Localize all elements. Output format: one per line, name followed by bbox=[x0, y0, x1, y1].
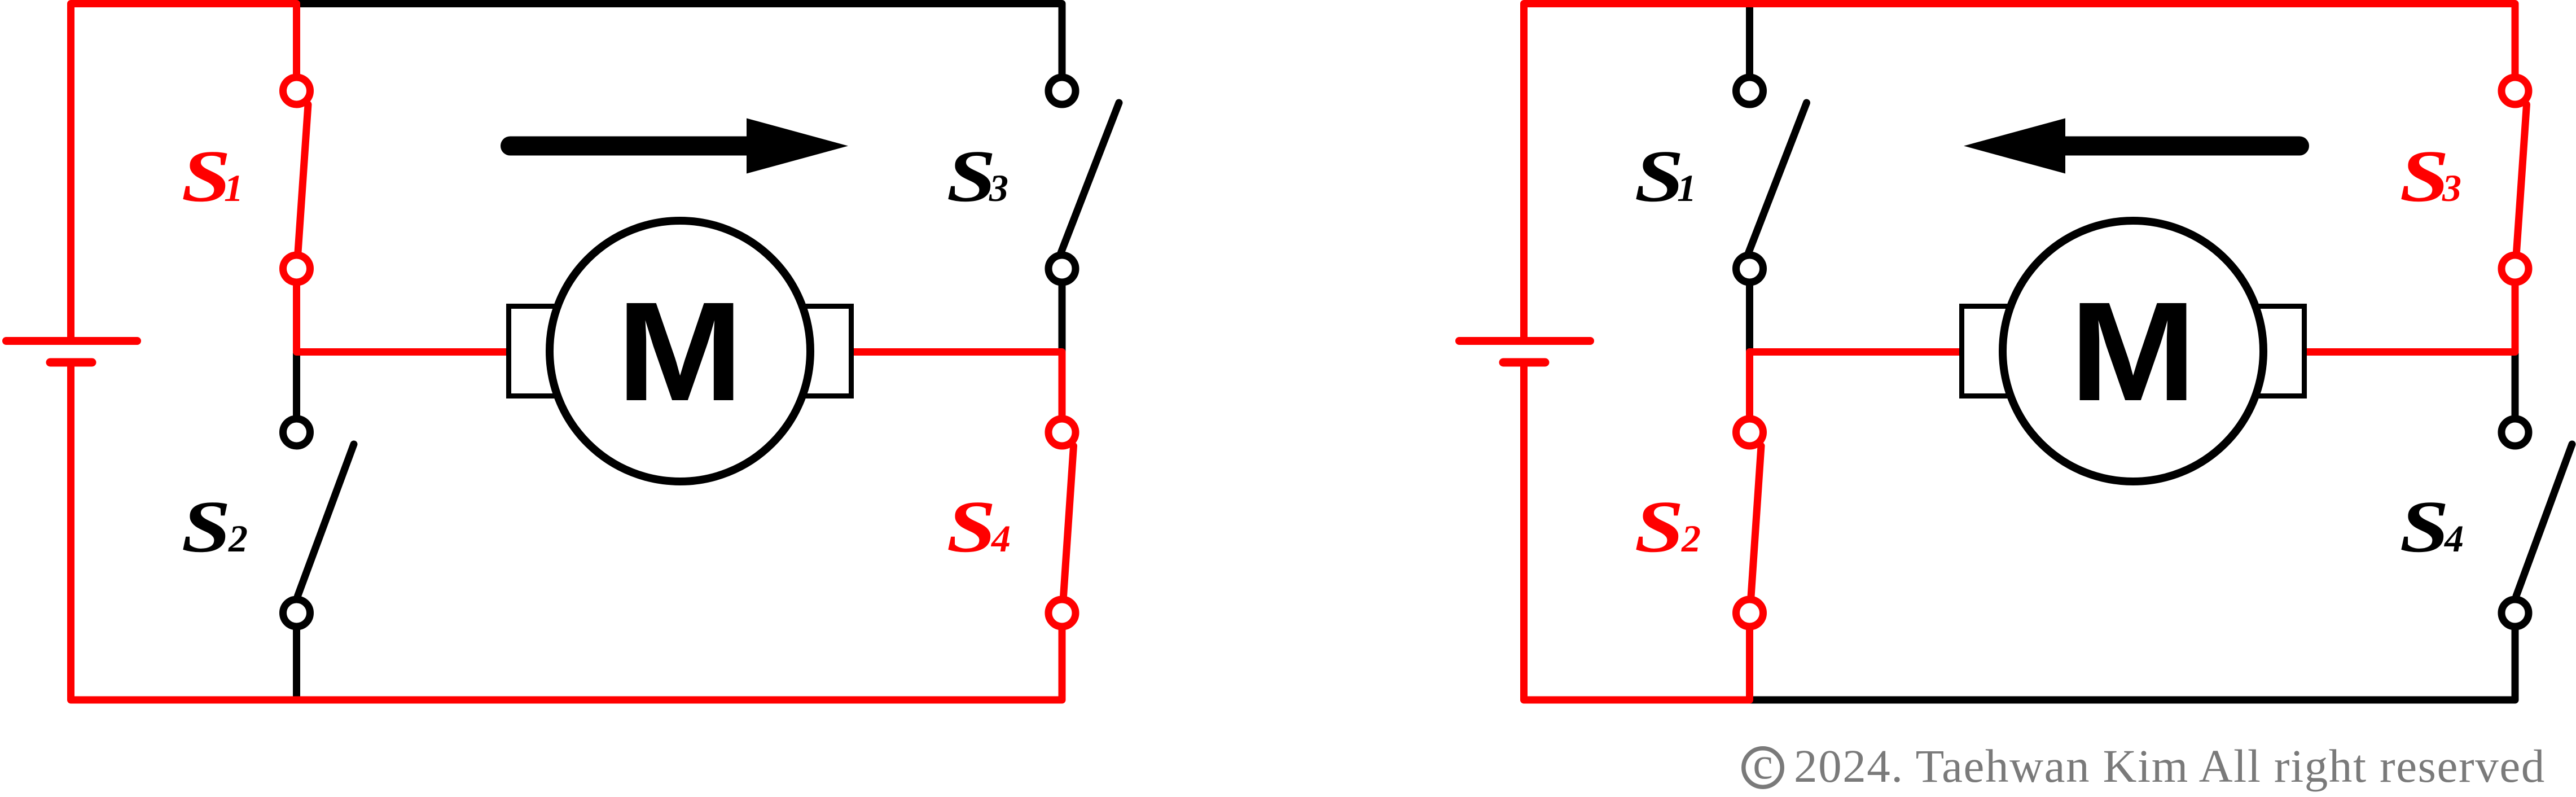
motor M2 left terminal box bbox=[1962, 306, 2050, 396]
current direction arrow (rightward) shaft bbox=[510, 137, 747, 156]
wire: black from top bus down to S1 top contact (right circuit) bbox=[1746, 4, 1753, 80]
switch S3 bottom contact (right circuit) bbox=[2502, 255, 2529, 282]
switch S2 bottom contact bbox=[283, 599, 310, 627]
switch S1 top contact bbox=[283, 77, 310, 104]
wire: black from S1 bottom contact to motor-left junction (right circuit) bbox=[1746, 283, 1753, 356]
motor M1 right terminal box bbox=[764, 306, 852, 396]
wire: red from motor-left junction to S2 top contact (right circuit) bbox=[1750, 352, 1973, 419]
wire: black from S2 bottom contact down to bottom bus bbox=[293, 627, 300, 700]
switch S2 blade (closed, red, right circuit) bbox=[1751, 446, 1761, 597]
switch S2 top contact bbox=[283, 419, 310, 446]
svg-text:M: M bbox=[617, 273, 744, 431]
svg-text:M: M bbox=[2070, 273, 2197, 431]
current direction arrow (leftward) head bbox=[1964, 119, 2065, 174]
motor M1 left terminal box bbox=[509, 306, 596, 396]
svg-text:S: S bbox=[2400, 486, 2450, 568]
switch S1 blade (closed, red) bbox=[298, 104, 308, 252]
svg-text:S: S bbox=[1635, 135, 1684, 217]
wire: red battery positive, up left side, along top to S1 bbox=[71, 4, 297, 338]
switch S4 bottom contact bbox=[1048, 599, 1076, 627]
svg-text:S: S bbox=[947, 486, 997, 568]
switch S3 top contact bbox=[1048, 77, 1076, 104]
svg-text:4: 4 bbox=[990, 517, 1011, 560]
wire: red battery positive up, along top bus to S3 (right circuit) bbox=[1524, 4, 2516, 338]
switch S3 bottom contact bbox=[1048, 255, 1076, 282]
wire: black bottom bus from S2 node to S4 bottom contact (right circuit) bbox=[1750, 627, 2516, 700]
wire: red from S1 bottom contact to motor-left junction, to motor left terminal bbox=[297, 283, 520, 352]
switch S4 blade (closed, red) bbox=[1064, 446, 1074, 597]
wire: top bus black segment S1 node to S3 node, down to S3 bbox=[297, 4, 1063, 80]
wire: black from S1/S2 junction down to S2 top contact bbox=[293, 353, 300, 418]
motor M1 body circle bbox=[550, 221, 810, 481]
switch S4 top contact bbox=[1048, 419, 1076, 446]
battery BT2 positive plate (long, red) bbox=[1459, 337, 1590, 345]
switch S3 blade (closed, red, right circuit) bbox=[2517, 104, 2527, 252]
svg-text:3: 3 bbox=[2442, 167, 2461, 209]
switch S1 top contact (right circuit) bbox=[1736, 77, 1763, 104]
svg-text:1: 1 bbox=[1677, 167, 1696, 209]
battery BT1 positive plate (long, red) bbox=[6, 337, 137, 345]
switch S3 top contact (right circuit) bbox=[2502, 77, 2529, 104]
switch S4 bottom contact (right circuit) bbox=[2502, 599, 2529, 627]
battery BT2 negative plate (short, red) bbox=[1503, 358, 1545, 367]
switch S1 bottom contact bbox=[283, 255, 310, 282]
wire: black from S3/S4 junction down to S4 top contact (right circuit) bbox=[2512, 353, 2519, 418]
svg-text:c: c bbox=[1753, 739, 1773, 789]
svg-text:S: S bbox=[947, 135, 997, 217]
motor M2 right terminal box bbox=[2217, 306, 2305, 396]
svg-text:3: 3 bbox=[989, 167, 1008, 209]
svg-text:2: 2 bbox=[228, 517, 248, 560]
wire: red from S3 bottom contact to junction, left to motor right terminal (right circuit) bbox=[2292, 283, 2515, 352]
svg-text:2024. Taehwan Kim All right re: 2024. Taehwan Kim All right reserved bbox=[1794, 740, 2546, 792]
switch S4 top contact (right circuit) bbox=[2502, 419, 2529, 446]
switch S2 top contact (right circuit) bbox=[1736, 419, 1763, 446]
svg-text:2: 2 bbox=[1681, 517, 1701, 560]
svg-text:S: S bbox=[182, 135, 231, 217]
switch S3 blade (open, black) bbox=[1061, 103, 1119, 253]
wire: red from motor right terminal to S3/S4 junction, down to S4 top contact bbox=[844, 352, 1062, 419]
current direction arrow (leftward) shaft bbox=[2065, 137, 2299, 156]
svg-text:S: S bbox=[182, 486, 231, 568]
battery BT1 negative plate (short, red) bbox=[50, 358, 92, 367]
svg-text:1: 1 bbox=[224, 167, 243, 209]
switch S1 blade (open, black, right circuit) bbox=[1749, 103, 1807, 253]
switch S4 blade (open, black, right circuit) bbox=[2516, 444, 2572, 596]
svg-text:4: 4 bbox=[2443, 517, 2464, 560]
switch S2 bottom contact (right circuit) bbox=[1736, 599, 1763, 627]
motor M2 body circle bbox=[2003, 221, 2263, 481]
svg-text:S: S bbox=[2400, 135, 2450, 217]
wire: black from S3 bottom contact down to motor-right junction bbox=[1059, 283, 1066, 356]
svg-text:S: S bbox=[1635, 486, 1684, 568]
wire: red bottom bus from battery negative to S4 bottom contact bbox=[71, 366, 1063, 700]
current direction arrow (rightward) head bbox=[747, 119, 848, 174]
switch S2 blade (open, black) bbox=[298, 444, 354, 596]
wire: red bottom from battery negative to S2 bottom contact (right circuit) bbox=[1524, 366, 1750, 700]
switch S1 bottom contact (right circuit) bbox=[1736, 255, 1763, 282]
copyright symbol circle bbox=[1744, 748, 1782, 787]
